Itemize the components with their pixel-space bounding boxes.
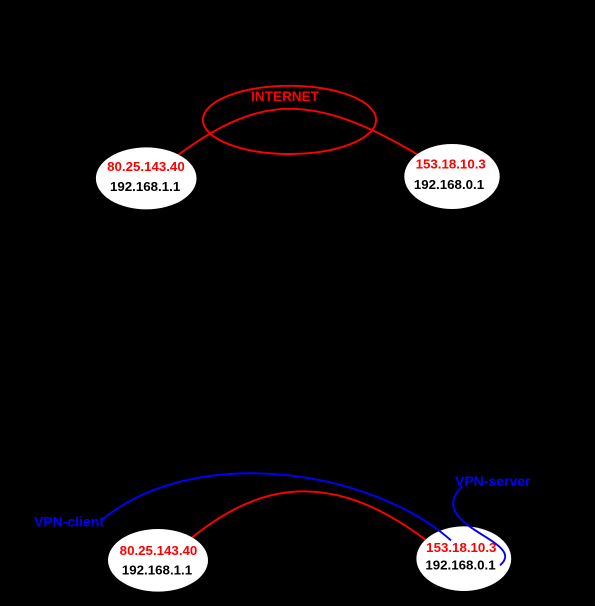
node top-left router ellipse xyxy=(96,147,197,209)
wire: blue S-curve leader from VPN-server label into router xyxy=(453,486,505,565)
svg-text:192.168.0.1: 192.168.0.1 xyxy=(414,177,485,192)
wire: top red arc between routers through internet cloud xyxy=(145,109,452,180)
wire: bottom red arc between routers xyxy=(172,491,436,554)
svg-text:192.168.1.1: 192.168.1.1 xyxy=(122,563,193,578)
internet cloud ellipse xyxy=(203,86,376,154)
node bottom-right router ellipse xyxy=(416,526,511,591)
svg-text:153.18.10.3: 153.18.10.3 xyxy=(426,540,496,555)
svg-text:80.25.143.40: 80.25.143.40 xyxy=(120,543,198,558)
node bottom-left router ellipse xyxy=(108,529,208,592)
svg-text:192.168.0.1: 192.168.0.1 xyxy=(425,557,496,572)
svg-text:153.18.10.3: 153.18.10.3 xyxy=(416,157,486,172)
svg-text:80.25.143.40: 80.25.143.40 xyxy=(107,159,185,174)
wire: blue VPN tunnel arc from client label to server router xyxy=(101,473,451,540)
svg-text:VPN-client: VPN-client xyxy=(34,514,104,530)
svg-text:VPN-server: VPN-server xyxy=(455,473,531,489)
node top-right router ellipse xyxy=(404,144,499,209)
svg-text:INTERNET: INTERNET xyxy=(251,89,320,104)
svg-text:192.168.1.1: 192.168.1.1 xyxy=(110,179,181,194)
